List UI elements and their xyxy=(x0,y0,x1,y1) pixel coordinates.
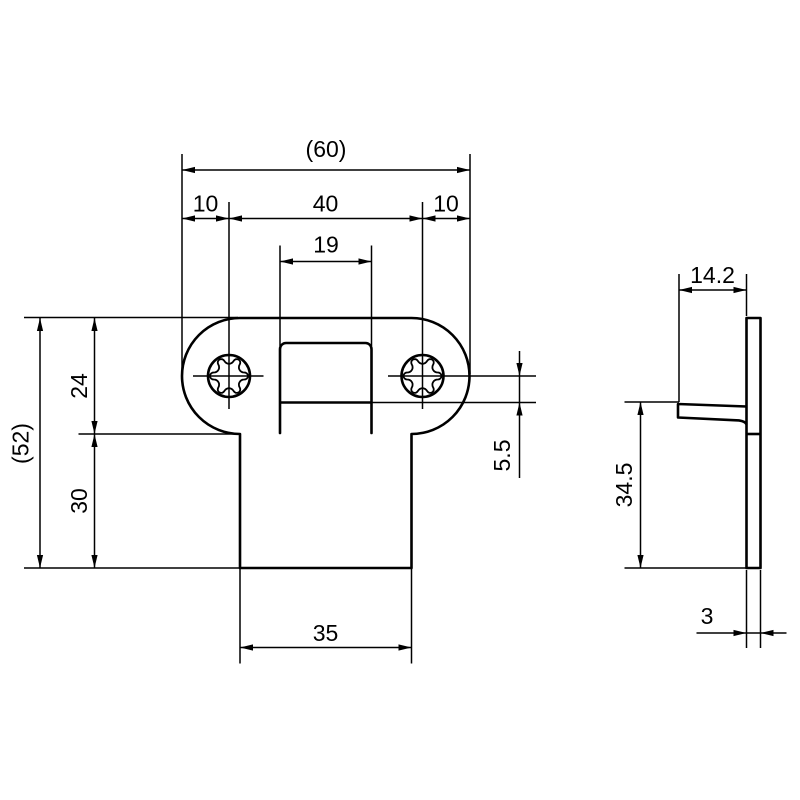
screw hole left: vertical centerline / extension line xyxy=(228,202,230,409)
dimension 5.5 upper arrow xyxy=(519,351,521,376)
extension line bottom horizontal (y=568) xyxy=(24,567,240,569)
dimension 10 left line xyxy=(182,218,229,220)
extension line 14.2 left (x=679) xyxy=(678,274,680,402)
svg-text:35: 35 xyxy=(313,620,339,646)
dimension 10 right line xyxy=(423,218,471,220)
screw hole right: vertical centerline / extension line xyxy=(422,202,424,409)
svg-text:40: 40 xyxy=(313,191,339,217)
dimension 14.2 line xyxy=(679,289,747,291)
svg-text:30: 30 xyxy=(66,488,92,514)
svg-text:(52): (52) xyxy=(8,423,34,464)
svg-text:5.5: 5.5 xyxy=(489,440,515,472)
dimension 40 line xyxy=(229,218,423,220)
extension line cutout left (x=280) xyxy=(279,246,281,347)
screw hole left: horizontal centerline xyxy=(193,375,264,377)
dimension 3 middle connector xyxy=(747,632,761,634)
dimension 19 line xyxy=(280,261,372,263)
svg-text:3: 3 xyxy=(701,603,714,629)
side view joint line xyxy=(747,433,761,436)
extension line 5.5 lower (y=402.5) xyxy=(372,402,537,404)
screw hole right: horizontal centerline extended as 5.5 upper extension xyxy=(388,375,536,377)
extension line 34.5 top (y=402) xyxy=(625,401,680,403)
extension line 3 left (x=746.5) xyxy=(746,570,748,648)
screw hole left: outer circle xyxy=(208,355,250,397)
svg-text:19: 19 xyxy=(313,232,339,258)
svg-text:10: 10 xyxy=(193,191,219,217)
extension line 35 right (x=411.5) xyxy=(411,568,413,664)
extension line waist horizontal (y=434) xyxy=(79,433,242,435)
extension line top left horizontal (y=317.5) xyxy=(24,317,238,319)
lip bend line inside cutout xyxy=(280,401,372,404)
dimension (52) line xyxy=(39,318,41,568)
front view plate outline xyxy=(182,318,470,568)
extension line 3 right (x=760.5) xyxy=(760,570,762,648)
dimension 30 line xyxy=(94,434,96,568)
side view plate xyxy=(747,318,761,568)
dimension 3 right arrow line xyxy=(761,632,787,634)
dimension 24 line xyxy=(94,318,96,434)
extension line 34.5 bottom (y=568) xyxy=(625,567,747,569)
dimension 34.5 line xyxy=(640,402,642,568)
screw hole left: torx star xyxy=(210,359,248,393)
dimension 3 left arrow line xyxy=(697,632,747,634)
extension line cutout right (x=371.5) xyxy=(371,246,373,347)
svg-text:(60): (60) xyxy=(306,136,347,162)
extension line left outer (x=182) xyxy=(181,154,183,374)
extension line 14.2 right (x=746.5) xyxy=(746,274,748,316)
latch cutout (rounded-top rectangle) xyxy=(280,343,372,433)
dimension 5.5 lower arrow xyxy=(519,403,521,479)
svg-text:10: 10 xyxy=(433,191,459,217)
dimension (60) line with arrows xyxy=(182,169,470,171)
dimension 35 line xyxy=(240,647,412,649)
extension line right outer (x=470) xyxy=(469,154,471,374)
svg-text:34.5: 34.5 xyxy=(611,463,637,508)
extension line 35 left (x=240) xyxy=(239,568,241,664)
side view lip xyxy=(678,404,747,425)
screw hole right: torx star xyxy=(404,359,442,393)
svg-text:24: 24 xyxy=(66,373,92,399)
dimension 5.5 connector xyxy=(519,376,521,403)
svg-text:14.2: 14.2 xyxy=(690,262,735,288)
screw hole right: outer circle xyxy=(402,355,444,397)
